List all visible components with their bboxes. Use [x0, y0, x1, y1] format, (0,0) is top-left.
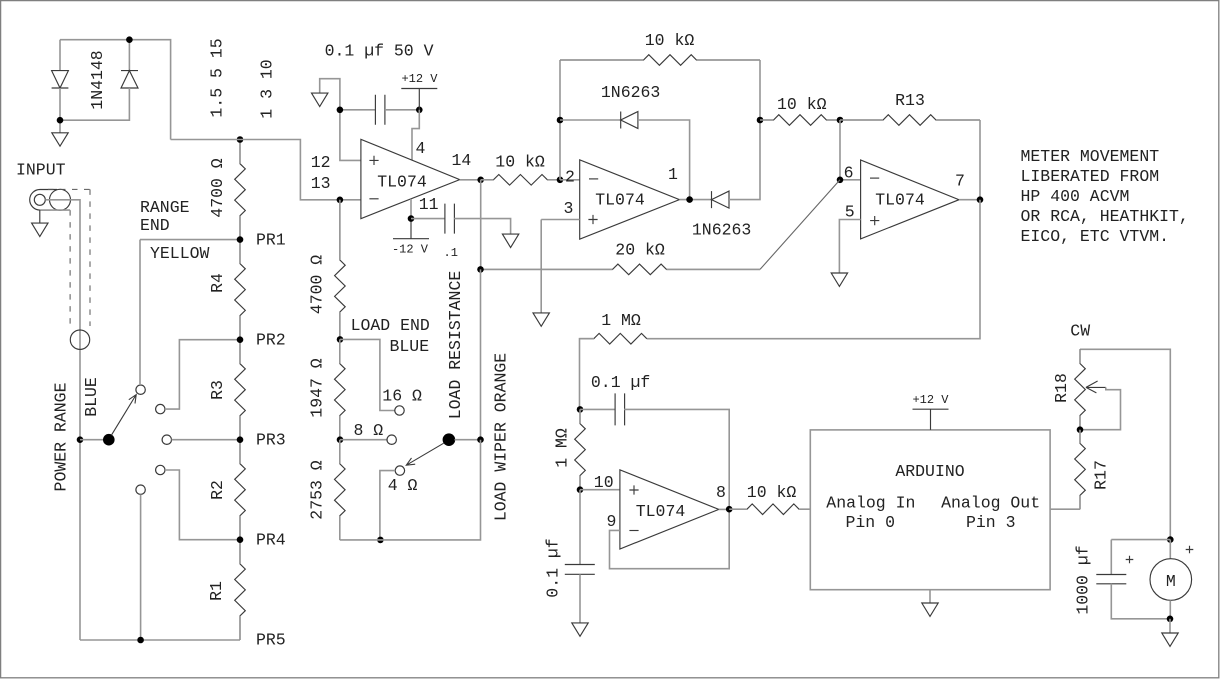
contact SW1 pos C [162, 435, 171, 444]
diode D4 1N6263 [712, 191, 730, 208]
ground at pin 5 [831, 273, 847, 286]
svg-text:ARDUINO: ARDUINO [895, 462, 964, 481]
wire down to load wiper [480, 269, 482, 439]
svg-text:PR5: PR5 [256, 631, 286, 650]
svg-text:4700 Ω: 4700 Ω [308, 255, 327, 315]
node bottom rail junction [137, 637, 144, 644]
wire U3 out down to 1M [647, 200, 980, 339]
svg-text:Analog In: Analog In [826, 494, 915, 513]
svg-text:14: 14 [452, 151, 472, 170]
node pin 2 [557, 177, 564, 184]
svg-text:Analog Out: Analog Out [941, 494, 1040, 513]
wire 8 ohm tap [340, 439, 387, 441]
ground under diodes [52, 133, 68, 146]
node pin13 feedback junction [337, 197, 344, 204]
capacitor 0.1uf integrator [615, 393, 625, 425]
capacitor 0.1uf to ground [565, 565, 595, 575]
meter M [1150, 559, 1192, 601]
svg-text:0.1 µf: 0.1 µf [544, 538, 563, 597]
wire to 0.1uf ground cap [579, 490, 581, 565]
resistor R17 [1075, 430, 1086, 510]
node 20k left [477, 266, 484, 273]
svg-text:LIBERATED FROM: LIBERATED FROM [1021, 167, 1160, 186]
wire cap to ground jog [320, 79, 340, 110]
ground arduino [922, 603, 938, 616]
diode D2 1N4148 [121, 71, 138, 88]
node pin 10 [577, 486, 584, 493]
resistor 2753 ohm [334, 440, 345, 540]
wire diode D2 cathode lead [128, 40, 130, 71]
power +12V bar U1 [401, 88, 437, 90]
svg-text:BLUE: BLUE [82, 377, 101, 417]
svg-text:10: 10 [594, 473, 614, 492]
svg-text:R2: R2 [208, 480, 227, 500]
ground at .1 cap [502, 234, 518, 247]
svg-text:OR RCA, HEATHKIT,: OR RCA, HEATHKIT, [1021, 207, 1189, 226]
wire 1M to cap node [580, 339, 594, 410]
svg-text:EICO, ETC VTVM.: EICO, ETC VTVM. [1021, 227, 1170, 246]
resistor 4700 ohm top [235, 140, 246, 240]
wire pin 10 [580, 489, 620, 491]
wire R18 wiper loop [1080, 387, 1121, 429]
wire R13 right down to U3 out [979, 120, 981, 200]
contact 4 ohm [395, 466, 404, 475]
wire cap bottom to meter bottom [1111, 584, 1170, 619]
ground at pin 3 [533, 313, 549, 326]
svg-text:BLUE: BLUE [390, 337, 430, 356]
node cap left [337, 107, 344, 114]
diode D1 1N4148 [52, 71, 69, 88]
resistor R4 [235, 240, 246, 340]
resistor 20k [481, 264, 761, 275]
wire load bottom rail [340, 440, 481, 540]
svg-text:TL074: TL074 [636, 502, 686, 521]
ground at 0.1uf cap [572, 623, 588, 636]
svg-text:4 Ω: 4 Ω [388, 476, 418, 495]
wire to pin 6 [840, 120, 861, 180]
node pin 11 [408, 215, 415, 222]
resistor R18 pot [1075, 349, 1086, 429]
svg-text:+12 V: +12 V [912, 393, 949, 407]
svg-text:12: 12 [311, 153, 331, 172]
node PR2 [237, 336, 244, 343]
svg-text:13: 13 [311, 174, 331, 193]
svg-text:20 kΩ: 20 kΩ [615, 241, 665, 260]
wire CW rail to meter [1080, 349, 1170, 539]
node switch feed junction [77, 436, 84, 443]
wire pin 8 out [719, 508, 729, 510]
plus mark meter [1186, 546, 1194, 554]
node diode junction left [557, 117, 564, 124]
op-amp U2 TL074 pins 1-3 [580, 160, 680, 239]
svg-text:R1: R1 [207, 581, 226, 601]
svg-text:1 MΩ: 1 MΩ [601, 311, 641, 330]
svg-text:INPUT: INPUT [16, 161, 66, 180]
svg-text:PR2: PR2 [256, 331, 286, 350]
wire diagonal 20k to pin 6 [760, 180, 840, 270]
svg-text:6: 6 [844, 164, 854, 183]
wire Analog Out to R17 [1050, 508, 1080, 510]
svg-text:1.5 5 15: 1.5 5 15 [208, 38, 227, 117]
resistor R3 [235, 340, 246, 440]
svg-text:TL074: TL074 [595, 191, 645, 210]
svg-text:RANGE: RANGE [140, 198, 190, 217]
wire cap 1000uf top [1111, 539, 1170, 541]
wire to pin 2 [560, 179, 580, 181]
svg-text:1N4148: 1N4148 [88, 50, 107, 109]
svg-text:Pin 0: Pin 0 [846, 513, 896, 532]
wire contact B to PR2 [165, 340, 240, 409]
ground under input jack [39, 210, 41, 223]
capacitor 0.1uf 50V bypass [375, 95, 385, 125]
wire pin 14 out [460, 179, 481, 181]
svg-text:POWER RANGE: POWER RANGE [52, 382, 71, 491]
svg-text:7: 7 [955, 172, 965, 191]
wire cap left [340, 109, 376, 111]
svg-text:R3: R3 [208, 380, 227, 400]
wire RANGE END to PR1 [140, 239, 240, 241]
svg-text:0.1 µf 50 V: 0.1 µf 50 V [325, 41, 434, 60]
wire U2 inverting node vertical [559, 60, 561, 180]
resistor 10k feedback top [560, 55, 760, 66]
wire +12V to pin 4 [412, 110, 419, 161]
wire PR top to pin 13 [171, 140, 361, 200]
wire pin 9 feedback loop [610, 509, 730, 569]
svg-text:HP 400 ACVM: HP 400 ACVM [1021, 187, 1130, 206]
contact SW1 pos D [156, 465, 165, 474]
node PR chain top [237, 136, 244, 143]
svg-text:0.1 µf: 0.1 µf [591, 373, 650, 392]
wire arduino ground stub [929, 590, 931, 603]
svg-text:METER MOVEMENT: METER MOVEMENT [1021, 147, 1160, 166]
svg-text:+12 V: +12 V [401, 72, 438, 86]
wire to switch pole [80, 439, 103, 441]
node load wiper junction [477, 436, 484, 443]
svg-text:9: 9 [607, 512, 617, 531]
wire meter ground stub [1169, 619, 1171, 633]
wire U1 out down [480, 180, 482, 270]
power -12V stub [410, 219, 412, 239]
resistor 1947 ohm [334, 339, 345, 439]
contact 16 ohm [395, 406, 404, 415]
node PR4 [237, 536, 244, 543]
svg-text:Pin 3: Pin 3 [966, 513, 1016, 532]
wire to cap plate [1110, 540, 1112, 575]
wire cap to ground [454, 219, 510, 234]
svg-text:CW: CW [1070, 321, 1090, 340]
svg-text:R18: R18 [1052, 373, 1071, 403]
ground at bypass cap [312, 93, 328, 106]
pot R18 wiper arrow [1086, 381, 1106, 393]
wire bottom rail to PR5 [80, 639, 240, 641]
node load end [337, 336, 344, 343]
svg-text:1 MΩ: 1 MΩ [552, 428, 571, 468]
node diode bottom junction [57, 117, 64, 124]
svg-text:LOAD RESISTANCE: LOAD RESISTANCE [446, 271, 465, 420]
ground input jack [32, 223, 48, 236]
wire pin 5 to ground [839, 220, 860, 273]
connector J1 input jack [30, 190, 57, 211]
svg-text:1N6263: 1N6263 [601, 83, 660, 102]
svg-text:END: END [140, 216, 170, 235]
wire shield to dashed run [40, 209, 70, 211]
wire D4 anode up to node [729, 120, 760, 200]
node 8 ohm tap [337, 436, 344, 443]
wire load end to 16 ohm tap [340, 339, 395, 410]
wire cap to pin 12 [340, 110, 361, 161]
node U4 output [726, 506, 733, 513]
wire contact D to PR4 [165, 470, 240, 540]
node integrator input top [577, 406, 584, 413]
wire pin 11 stub [410, 199, 412, 219]
wire contact E to bottom rail [140, 494, 142, 640]
node U3 output [977, 196, 984, 203]
wire diode D1 anode lead [59, 40, 61, 71]
op-amp U3 TL074 pins 5-7 [861, 160, 959, 239]
wire pin 7 out [959, 199, 980, 201]
resistor 10k to Arduino [729, 504, 810, 515]
resistor R2 [235, 440, 246, 540]
svg-text:TL074: TL074 [377, 173, 427, 192]
resistor 10k U1 out to U2 [481, 175, 560, 186]
op-amp U1 TL074 pins 12-14 [361, 139, 460, 218]
wire contact C to PR3 [172, 439, 241, 441]
contact 8 ohm [387, 435, 396, 444]
svg-text:PR3: PR3 [256, 431, 286, 450]
wire pin 3 [541, 219, 580, 221]
svg-text:.1: .1 [444, 246, 458, 260]
wire top rail from diodes to PR chain [60, 40, 171, 140]
resistor 4700 ohm feedback [335, 200, 346, 340]
wire D1 to ground node [59, 88, 61, 120]
capacitor 1000uf [1096, 575, 1126, 584]
plus mark cap [1126, 556, 1134, 564]
wire to D3 cathode [560, 119, 621, 121]
svg-text:10 kΩ: 10 kΩ [777, 95, 827, 114]
svg-text:5: 5 [845, 203, 855, 222]
svg-text:R4: R4 [208, 273, 227, 293]
contact SW1 pos A [136, 385, 145, 394]
wire pin11 to cap [411, 218, 445, 220]
wire pole to wiper rail [455, 439, 481, 441]
svg-text:TL074: TL074 [875, 191, 925, 210]
switch pole SW1 [103, 434, 115, 446]
node R13 left [837, 117, 844, 124]
wire pin 3 to ground [540, 220, 542, 313]
svg-text:PR4: PR4 [256, 531, 286, 550]
svg-text:1 3 10: 1 3 10 [258, 59, 277, 118]
node 4 ohm bottom junction [377, 537, 384, 544]
wire 4 ohm down [380, 471, 395, 540]
svg-text:16 Ω: 16 Ω [382, 387, 422, 406]
resistor 1M vertical [575, 409, 586, 489]
svg-text:YELLOW: YELLOW [150, 244, 210, 263]
power -12V bar [393, 238, 429, 240]
node pin 6 [837, 177, 844, 184]
wire cap to U4 out [624, 409, 729, 509]
Arduino box [810, 430, 1050, 590]
node diode junction right [757, 117, 764, 124]
svg-text:4700 Ω: 4700 Ω [208, 158, 227, 218]
wire cap to +12V [385, 109, 419, 111]
node U1 output [477, 177, 484, 184]
svg-text:PR1: PR1 [256, 231, 286, 250]
svg-text:R17: R17 [1092, 460, 1111, 490]
switch pole SW2 load wiper [443, 433, 456, 446]
wire meter bottom lead [1169, 600, 1171, 619]
shield circle [70, 330, 89, 349]
svg-text:1N6263: 1N6263 [692, 221, 751, 240]
ground meter [1162, 633, 1178, 646]
svg-text:2: 2 [565, 168, 575, 187]
svg-text:1000 µf: 1000 µf [1074, 545, 1093, 614]
switch SW2 wiper arrow [406, 443, 443, 465]
wire top 10k right down [759, 60, 761, 120]
resistor 1M horizontal [580, 333, 647, 344]
node U2 output [686, 196, 693, 203]
node PR1 [237, 236, 244, 243]
svg-text:10 kΩ: 10 kΩ [645, 31, 695, 50]
capacitor .1 at pin 11 [445, 204, 455, 234]
resistor R1 [235, 540, 246, 640]
wire meter top lead [1169, 540, 1171, 559]
svg-text:8 Ω: 8 Ω [354, 421, 384, 440]
wire to 0.1uf cap [580, 408, 615, 410]
power +12V bar arduino [913, 408, 949, 410]
contact SW1 pos E [136, 485, 145, 494]
switch SW1 wiper arrow [111, 395, 136, 436]
wire cap to ground [579, 574, 581, 622]
svg-text:3: 3 [564, 199, 574, 218]
node PR3 [237, 436, 244, 443]
svg-text:1: 1 [668, 165, 678, 184]
svg-text:10 kΩ: 10 kΩ [495, 153, 545, 172]
wire input hot lead down to PR5 rail [45, 200, 80, 640]
node meter top [1167, 536, 1174, 543]
svg-text:M: M [1166, 572, 1176, 591]
op-amp U4 TL074 pins 8-10 [620, 470, 719, 549]
node meter bottom [1167, 616, 1174, 623]
svg-text:R13: R13 [895, 91, 925, 110]
resistor 10k to U3 [760, 115, 840, 126]
wire U2 out to D4 [679, 199, 711, 201]
contact SW1 pos B [156, 404, 165, 413]
node diode top junction [126, 36, 133, 43]
svg-text:10 kΩ: 10 kΩ [747, 483, 797, 502]
node cap right [416, 107, 423, 114]
svg-text:2753 Ω: 2753 Ω [308, 460, 327, 520]
node R18-R17 junction [1077, 426, 1084, 433]
svg-text:11: 11 [419, 195, 439, 214]
svg-text:4: 4 [416, 139, 426, 158]
svg-text:LOAD END: LOAD END [351, 316, 430, 335]
shield dashed outline [48, 188, 90, 190]
svg-text:8: 8 [716, 483, 726, 502]
wire ground stub [59, 120, 61, 132]
svg-text:1947 Ω: 1947 Ω [308, 358, 327, 418]
wire D2 to ground node [60, 88, 129, 120]
svg-text:-12 V: -12 V [392, 243, 429, 257]
svg-text:LOAD WIPER ORANGE: LOAD WIPER ORANGE [492, 353, 511, 521]
wire RANGE END to contact A [139, 240, 141, 385]
wire D3 anode to U2 out [638, 120, 690, 200]
resistor R13 [840, 115, 980, 126]
